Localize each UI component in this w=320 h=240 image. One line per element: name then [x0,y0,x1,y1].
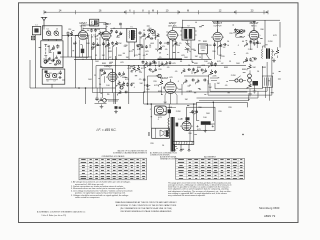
annotation smudges [39,22,281,149]
wire v155 [155,31,157,41]
svg-text:1M: 1M [126,57,129,59]
wire osc to bus [51,84,53,88]
det row2 [183,79,187,84]
svg-text:56K: 56K [86,43,90,45]
svg-text:68K: 68K [194,111,198,113]
notes list [71,181,133,199]
svg-text:C7: C7 [53,81,55,83]
wire left stub [29,60,31,88]
IF transformer T2 [182,28,195,40]
svg-text:8MF: 8MF [150,63,155,65]
svg-text:1M: 1M [102,55,105,57]
svg-text:56K: 56K [236,63,240,65]
bus junction dots [82,59,83,60]
svg-text:47K: 47K [137,49,141,51]
svg-text:12SQ7: 12SQ7 [104,65,112,68]
svg-text:8MF: 8MF [158,91,163,93]
svg-text:2.2M: 2.2M [248,49,253,51]
V3 plate wire [173,26,183,28]
B+ wire [197,102,248,121]
V1 plate wire [80,25,82,31]
wire right vert A [264,20,266,48]
resistor R1 [51,45,56,51]
det cap b [192,68,195,71]
resistor R7 [155,33,160,39]
gang tuning shield box [42,26,62,40]
diode parts [147,29,151,32]
svg-text:3: 3 [106,77,107,79]
svg-text:OUTPUT: OUTPUT [213,26,222,28]
output transformer T3 [262,49,263,59]
V6 shield box [100,69,113,93]
svg-text:12SA7: 12SA7 [79,22,87,25]
wire y104 [144,103,197,105]
V3 grid cap [167,42,170,46]
capacitor C3 [56,44,59,48]
wire grid to V1 [62,34,78,36]
model name [259,206,280,218]
svg-text:8MF: 8MF [242,69,247,71]
antenna coil box [32,26,40,34]
wire right vert B [279,22,281,48]
capacitor C12 [102,32,105,35]
svg-text:1M: 1M [245,61,248,63]
wire tuner drops [48,39,50,41]
tube V5 35Z5 [249,31,258,40]
cap C20 [214,63,217,67]
svg-text:ACCORDING TO THE CONDITION OF: ACCORDING TO THE CONDITION OF THE FILTER… [116,204,177,207]
wire bus y59 [74,58,158,60]
svg-text:(IN COMBINATION OF THE PARTICU: (IN COMBINATION OF THE PARTICULAR LINE O… [120,207,172,210]
harness wire 2 [210,62,267,91]
svg-text:VOL: VOL [162,46,165,48]
electrolytic bar [201,121,211,125]
svg-text:47K: 47K [273,35,277,37]
svg-text:47K: 47K [125,79,129,81]
svg-text:3: 3 [100,36,101,38]
harness wire 1 [215,66,262,89]
svg-text:RECEIVER WHERE A VOLTAGE IS BE: RECEIVER WHERE A VOLTAGE IS BEING MEASUR… [121,210,172,213]
B+ top wire [183,19,266,21]
T1 drops [128,42,130,59]
svg-text:47K: 47K [154,85,158,87]
mix marks [119,23,122,25]
wire x144 upper [143,66,145,92]
can A leads [201,54,203,60]
svg-text:©John F. Rider (see list on P3: ©John F. Rider (see list on P3) [41,214,66,217]
T2 trimmer B [185,47,191,52]
wire x147 upper [147,76,149,104]
capacitor C14 [139,31,142,35]
det resistor b [195,69,199,75]
wire ground bus left [30,87,116,89]
padder box [42,69,65,84]
capacitor C10 [90,29,93,33]
svg-text:3: 3 [166,35,167,37]
svg-text:47K: 47K [129,51,133,53]
svg-text:5M: 5M [219,55,222,57]
svg-text:3: 3 [180,126,181,128]
svg-text:50L6GT: 50L6GT [160,78,169,80]
tube V2 12SK7 [102,31,111,40]
B+ drop [212,102,214,121]
screen caps [110,30,113,34]
svg-text:68K: 68K [118,55,122,57]
svg-text:33: 33 [131,72,133,74]
svg-text:8MF: 8MF [73,43,78,45]
capacitor C13 [111,42,114,46]
svg-text:.1: .1 [97,39,99,41]
svg-text:SCHEMATIC DIAGRAM MEASUREMENTS: SCHEMATIC DIAGRAM MEASUREMENTS [113,152,148,155]
coupling cap C22 [234,28,237,32]
V2 cathode cap [102,42,105,46]
svg-text:8MF: 8MF [203,41,208,43]
switch S1 [235,79,238,82]
svg-text:5: 5 [223,37,224,39]
svg-text:5: 5 [178,35,179,37]
electrolytic plus marks [196,125,214,127]
note above voltage table [113,149,148,154]
svg-text:1M: 1M [91,49,94,51]
svg-text:56K: 56K [95,61,99,63]
capacitor C4 [51,59,55,62]
below parts [115,106,118,109]
wire plate run1 [83,28,106,30]
V5 pin drops [250,39,252,50]
svg-text:5: 5 [111,36,112,38]
V7 grid resistor [159,80,164,87]
svg-text:M: M [187,9,189,12]
T2 trimmer A [185,42,191,47]
padder extra [45,71,48,73]
v6 right parts [118,72,121,75]
resistor R20 [209,61,214,68]
second vertical [113,93,115,104]
svg-text:C1: C1 [46,29,48,31]
component value labels [73,29,278,147]
node dot right [242,134,243,135]
dial pointer scale [44,10,268,14]
wire bus y59 right [182,58,212,60]
svg-text:OPERATING VOLTAGES: OPERATING VOLTAGES [102,155,125,158]
V4 pin drops [214,41,216,60]
tube V1 12SA7 [78,31,87,40]
resistor R6 [141,33,146,39]
alignment table [176,158,245,179]
padder trimmer C6 [45,73,49,77]
speaker voice coil [166,130,169,137]
svg-text:C21: C21 [49,73,52,75]
svg-text:47K: 47K [141,68,145,70]
resistor R3 [69,31,74,37]
svg-text:2.2M: 2.2M [178,119,183,121]
svg-text:1M: 1M [217,83,220,85]
svg-text:5M: 5M [164,102,167,104]
OT core lower [171,117,174,152]
coupling res R22 [237,30,241,36]
centered footnote block [115,201,177,213]
volume cluster [116,81,121,88]
svg-text:1M: 1M [195,56,198,58]
wire ot primary lead [168,104,170,118]
V2 pin drops [103,39,105,59]
V6 grid parts [100,69,104,72]
wire x75 drop [75,41,77,88]
tone cluster [95,97,98,101]
wire det link [210,77,218,79]
wire x102 drop [102,88,104,98]
right can box [262,76,272,87]
OT load resistor [275,49,280,56]
svg-text:68K: 68K [194,63,198,65]
cluster bus parts3 [142,61,145,65]
volume cluster2 [117,90,121,96]
ballast blob [253,81,259,86]
svg-text:8MF: 8MF [97,45,102,47]
can box tails [265,87,267,98]
svg-text:L1: L1 [35,25,37,27]
tube V7 50L6 output [165,82,176,93]
svg-text:2.2M: 2.2M [231,75,236,77]
V8 box [187,107,215,130]
dial lamp 1 [173,144,176,150]
oscillator can T0 [90,19,99,26]
V7 pin wires [165,92,167,104]
wire v6 left [93,59,101,92]
harness stubs [181,84,183,95]
det cap c [201,69,205,72]
mixer extra parts [92,42,95,46]
svg-text:8MF: 8MF [102,63,107,65]
V4 top wire [212,21,256,23]
trimmer C15 [151,30,155,34]
V3 pin drops [169,39,171,59]
wire ant lead down [34,35,36,88]
v8 parts [186,117,190,120]
electrolytic ground [204,125,206,129]
svg-text:2.2M: 2.2M [268,41,273,43]
right chain wires [249,70,251,74]
heater bus dark [158,58,183,60]
trimmer C1 [46,31,50,35]
loop wire top [144,92,248,104]
svg-text:I.F. = 455 KC.: I.F. = 455 KC. [97,128,117,132]
svg-text:5: 5 [192,126,193,128]
filter unit [155,106,167,115]
wire y57 seg [60,56,92,58]
power transformer [172,141,193,144]
svg-text:8MF: 8MF [197,67,202,69]
wire plate run2 [110,28,127,30]
svg-text:5M: 5M [209,87,212,89]
osc extra parts [48,58,50,61]
voltage table [79,158,147,180]
x144 parts [143,78,146,81]
table left caption [160,156,178,161]
svg-text:8MF: 8MF [262,67,267,69]
svg-text:READINGS MEASURED AT THE RF CI: READINGS MEASURED AT THE RF CIRCUITS MAY… [115,201,177,204]
IF transformer T1 [127,28,137,42]
coupling wires [236,36,244,38]
svg-text:5: 5 [118,77,119,79]
svg-text:C22: C22 [55,74,58,76]
phono jack [31,36,34,40]
v8 inner blob [176,123,179,127]
svg-text:8MF: 8MF [224,67,229,69]
svg-text:1M: 1M [185,99,188,101]
capacitor C9 [67,32,70,36]
wire drop x85 [85,88,87,104]
copyright note [37,211,86,217]
svg-text:5M: 5M [140,83,143,85]
wire osc internals [45,56,47,64]
svg-text:12SQ7: 12SQ7 [169,22,177,25]
osc coil L2 [44,44,49,55]
wire x193 down [193,104,195,141]
svg-text:Stromberg 1500: Stromberg 1500 [259,206,280,210]
trimmer C5a [57,60,61,64]
capacitor C8 [59,71,62,75]
svg-text:56K: 56K [178,89,182,91]
tone switch [103,99,107,103]
dial lamp 2 [180,144,183,150]
osc feedback wire [99,23,106,32]
svg-text:.05: .05 [91,37,94,39]
alignment paragraph [168,181,232,197]
svg-text:8MF: 8MF [108,51,113,53]
wire long vertical [115,56,117,104]
V5 top wire [253,22,255,31]
svg-text:47K: 47K [134,55,138,57]
svg-text:may authorized the measurement: may authorized the measurement adjusted. [168,194,206,197]
resistor R10 [131,66,136,72]
filter resistor [168,109,171,113]
svg-text:56K: 56K [191,49,195,51]
T2 trimmer leads [187,40,189,44]
wire padder bottom [46,79,58,81]
capacitor C11 [94,29,97,33]
svg-text:CONV.: CONV. [80,26,87,28]
svg-text:56K: 56K [116,37,120,39]
svg-text:values noted for comparison.: values noted for comparison. [75,196,100,199]
svg-text:47K: 47K [144,85,148,87]
svg-text:ALIGNMENT: ALIGNMENT [204,155,216,158]
cluster bus parts [147,62,151,68]
svg-text:150: 150 [139,72,142,74]
V4 cathode [213,43,216,47]
tube V4 50L6 [213,32,222,41]
svg-text:T2: T2 [187,26,189,28]
resistor R5 [114,41,119,47]
svg-text:47K: 47K [197,129,201,131]
det resistor a [181,68,185,74]
svg-text:47K: 47K [158,117,162,119]
cap C21 [214,70,217,74]
det resistor c [203,69,207,75]
svg-text:3: 3 [248,35,249,37]
svg-text:5M: 5M [253,67,256,69]
speaker terminals [148,132,149,133]
coupling cap C23 [242,30,246,33]
tube V3 12SQ7 [168,30,178,40]
svg-text:2.2M: 2.2M [176,111,181,113]
OT ground [272,59,276,63]
svg-text:5: 5 [88,35,89,37]
padder trimmer C7 [52,73,56,77]
tube V6 12SQ7b [108,72,117,81]
wire v8 down [189,131,191,142]
svg-text:C2: C2 [56,29,58,31]
wire bus drop left [95,66,97,88]
volume pot R8 [159,41,162,45]
tr cluster [244,57,249,63]
svg-text:56K: 56K [206,113,210,115]
wire y92 extend [113,91,144,93]
antenna [41,17,47,27]
resistor R21 [209,70,214,77]
V1 pin drops [79,40,81,58]
cluster bus parts2 [149,68,153,71]
svg-text:A SCHEMATIC COURTESY STROMBERG: A SCHEMATIC COURTESY STROMBERG CARLSON C… [37,211,86,214]
harness wire 3 [208,57,272,95]
svg-text:AB29 Y9: AB29 Y9 [264,214,276,218]
OT wires [263,46,265,49]
harness wire 5 [199,95,249,101]
can A [199,44,208,54]
det bus wire [184,75,209,77]
wire top right [265,19,280,21]
V1 shield box [75,36,88,58]
dial lamp 3 [188,144,191,150]
harness wire 4 [197,91,259,98]
tube V8 [182,121,191,130]
OT primary winding [168,118,169,136]
oscillator coil box [41,41,63,68]
svg-text:T1: T1 [130,26,132,28]
wire x97 drop [96,88,98,97]
wire bus y65 [96,65,246,67]
det cap a [188,68,192,71]
V1 cathode bias [81,49,84,53]
pt caption [150,152,178,157]
resistor R11 [136,66,141,72]
wire spk vert [150,104,152,128]
svg-text:56K: 56K [184,57,188,59]
trimmer C2 [54,31,58,35]
wire x128 vertical [128,66,130,104]
resistor R2 [45,58,51,64]
svg-text:56K: 56K [88,79,92,81]
capacitor C16 [150,37,154,40]
svg-text:3: 3 [211,37,212,39]
svg-text:M: M [152,9,154,12]
resistor R4 [97,31,102,37]
speaker [152,128,170,138]
wire ant to tuner [43,27,45,30]
svg-text:C6: C6 [46,81,48,83]
right chain [247,64,252,71]
t1 side parts [137,44,140,48]
